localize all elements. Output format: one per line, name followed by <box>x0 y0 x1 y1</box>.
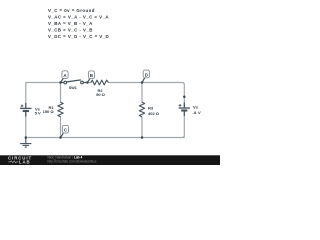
footer logo squiggle <box>8 161 18 163</box>
wire R1 branch <box>60 83 62 138</box>
svg-text:http://circuitlab.com/c6wweka3: http://circuitlab.com/c6wweka3fxce <box>48 159 97 163</box>
svg-text:SW1: SW1 <box>69 86 77 90</box>
voltage source Vs left (battery) <box>20 103 31 117</box>
wire R2 to right branch <box>109 83 185 108</box>
node C flag <box>61 125 69 137</box>
svg-text:D: D <box>145 72 148 77</box>
junction dot node C <box>59 136 62 139</box>
svg-text:B: B <box>90 73 93 78</box>
footer bar <box>0 155 220 165</box>
resistor R1 <box>58 102 63 116</box>
svg-text:V_BA = V_B - V_A: V_BA = V_B - V_A <box>48 21 93 26</box>
svg-text:5 V: 5 V <box>35 110 41 115</box>
svg-text:-8 V: -8 V <box>192 110 201 115</box>
wire top <box>26 83 185 138</box>
resistor R2 <box>91 80 109 85</box>
svg-text:150 Ω: 150 Ω <box>43 109 55 114</box>
node D flag <box>142 70 149 82</box>
junction dot bottom left <box>25 136 28 139</box>
wire right battery to bottom <box>182 112 184 138</box>
svg-text:R3: R3 <box>148 106 154 111</box>
junction dot node A <box>59 81 62 84</box>
svg-text:V_CB = V_C - V_B: V_CB = V_C - V_B <box>48 27 93 32</box>
svg-text:402 Ω: 402 Ω <box>148 111 160 116</box>
voltage source Vs right (battery) <box>179 103 190 117</box>
resistor R3 <box>139 102 144 117</box>
voltage source Vs right label <box>192 105 201 115</box>
svg-text:V_C = 0v = Ground: V_C = 0v = Ground <box>48 8 95 13</box>
junction dot node D <box>141 81 144 84</box>
junction dot node B <box>86 81 89 84</box>
equations text block <box>48 8 109 39</box>
junction dot R3 bottom <box>141 136 144 139</box>
resistor R2 label <box>96 88 106 97</box>
resistor R1 label <box>43 105 55 114</box>
node A flag <box>61 71 68 83</box>
svg-text:V_DC = V_D - V_C = V_D: V_DC = V_D - V_C = V_D <box>48 34 109 39</box>
switch SW1 <box>62 80 87 84</box>
voltage source Vs left label <box>35 106 41 115</box>
svg-text:LAB: LAB <box>19 160 31 165</box>
ground <box>20 138 31 148</box>
junction dot right branch <box>183 96 186 99</box>
node B flag <box>88 71 95 82</box>
svg-text:V_AC = V_A - V_C = V_A: V_AC = V_A - V_C = V_A <box>48 15 109 20</box>
wire bottom <box>26 112 185 138</box>
wire switch to R2 <box>83 82 91 84</box>
svg-text:90 Ω: 90 Ω <box>96 92 106 97</box>
resistor R3 label <box>148 106 160 117</box>
svg-text:Vs: Vs <box>193 105 199 110</box>
wire R3 branch <box>141 83 143 138</box>
